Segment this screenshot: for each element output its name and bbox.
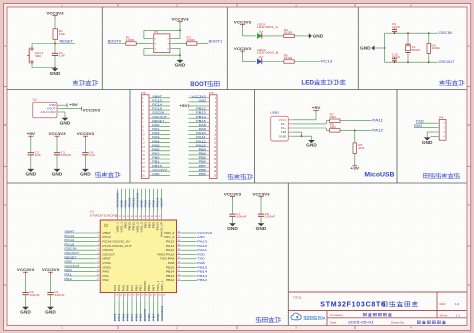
svg-text:VCC3V3: VCC3V3	[252, 192, 269, 196]
svg-text:PA11: PA11	[166, 248, 175, 252]
svg-text:PB0: PB0	[134, 284, 138, 291]
svg-text:1uF: 1uF	[59, 54, 66, 58]
svg-text:VCC3V3: VCC3V3	[48, 132, 65, 136]
svg-text:TITLE:: TITLE:	[293, 296, 302, 300]
svg-text:GND: GND	[60, 120, 71, 125]
svg-text:A: A	[4, 44, 6, 48]
svg-text:510R: 510R	[284, 30, 292, 34]
svg-text:SMD: SMD	[35, 54, 41, 58]
svg-text:Drawn By:: Drawn By:	[391, 320, 405, 324]
svg-text:100k: 100k	[431, 46, 440, 50]
svg-text:PB11: PB11	[131, 221, 135, 230]
svg-text:VCC3V3: VCC3V3	[234, 20, 251, 24]
svg-text:VCC3V3: VCC3V3	[171, 17, 188, 21]
svg-text:PA12: PA12	[166, 244, 175, 248]
svg-text:1k5: 1k5	[358, 146, 365, 150]
svg-text:RXD: RXD	[414, 124, 423, 128]
svg-text:VCC3V3: VCC3V3	[83, 109, 100, 113]
svg-text:PB2: PB2	[123, 221, 127, 228]
svg-text:VCC3V3: VCC3V3	[160, 306, 164, 321]
svg-text:PA0: PA0	[102, 270, 109, 274]
svg-text:Q1: Q1	[33, 98, 38, 102]
svg-text:PC15-OSC32_OUT: PC15-OSC32_OUT	[102, 244, 132, 248]
svg-text:B: B	[468, 123, 470, 127]
svg-text:OSCIN: OSCIN	[439, 31, 453, 35]
svg-text:TXD: TXD	[416, 119, 425, 123]
svg-text:TXD-PA9: TXD-PA9	[160, 257, 175, 261]
svg-text:100nF: 100nF	[29, 293, 40, 297]
svg-text:GND: GND	[152, 172, 160, 176]
svg-text:+5V: +5V	[179, 104, 188, 108]
svg-text:100nF: 100nF	[265, 214, 276, 218]
svg-text:RXD-PA10: RXD-PA10	[158, 252, 175, 256]
svg-text:510R: 510R	[284, 56, 292, 60]
svg-text:P1: P1	[154, 30, 159, 34]
svg-text:BACK_UP: BACK_UP	[159, 222, 163, 237]
svg-text:VDDA: VDDA	[102, 265, 111, 269]
svg-text:22R: 22R	[330, 125, 336, 129]
svg-text:PB14: PB14	[166, 270, 175, 274]
svg-text:PB12: PB12	[166, 278, 175, 282]
svg-text:VSS_2: VSS_2	[139, 221, 143, 232]
svg-text:PB3: PB3	[143, 221, 147, 228]
svg-text:VSSA: VSSA	[102, 261, 111, 265]
svg-text:1.0: 1.0	[455, 302, 460, 306]
svg-text:PB10: PB10	[127, 221, 131, 230]
svg-text:Company:: Company:	[330, 313, 344, 317]
svg-text:VCC3V3: VCC3V3	[224, 192, 241, 196]
svg-text:RESET: RESET	[60, 40, 74, 44]
svg-text:GND: GND	[199, 98, 207, 102]
svg-text:GND: GND	[360, 45, 371, 50]
svg-text:BOOT: BOOT	[190, 81, 208, 88]
svg-text:PA6: PA6	[126, 284, 130, 291]
svg-text:LED-0603_B: LED-0603_B	[257, 51, 278, 55]
svg-text:10k: 10k	[59, 32, 66, 36]
svg-text:GND: GND	[175, 63, 186, 68]
svg-text:100nF: 100nF	[61, 153, 72, 157]
svg-text:GND: GND	[26, 172, 37, 177]
svg-text:1uF: 1uF	[35, 153, 42, 157]
svg-text:GND: GND	[52, 172, 63, 177]
svg-text:P2: P2	[141, 91, 146, 95]
svg-text:OSCOUT: OSCOUT	[439, 60, 455, 64]
svg-text:Sheet:: Sheet:	[440, 313, 449, 317]
svg-text:PA1: PA1	[102, 274, 109, 278]
svg-text:PB9: PB9	[199, 172, 207, 176]
svg-text:REV:: REV:	[440, 302, 447, 306]
svg-text:PB15: PB15	[166, 265, 175, 269]
svg-text:B: B	[4, 123, 6, 127]
svg-text:VSS_1: VSS_1	[156, 280, 160, 291]
svg-text:100nF: 100nF	[236, 214, 247, 218]
svg-text:PA7: PA7	[130, 284, 134, 291]
svg-text:OSCIN: OSCIN	[102, 248, 113, 252]
svg-text:P4: P4	[439, 116, 444, 120]
svg-text:BOOT1: BOOT1	[209, 40, 223, 44]
svg-text:1uF: 1uF	[89, 153, 96, 157]
svg-text:OSCOUT: OSCOUT	[102, 252, 115, 256]
svg-text:PC13: PC13	[102, 235, 111, 239]
svg-text:ADJ/GND: ADJ/GND	[40, 110, 55, 114]
svg-text:A: A	[468, 44, 470, 48]
svg-text:GND: GND	[50, 71, 61, 76]
svg-text:GND: GND	[313, 33, 324, 38]
svg-text:22pF: 22pF	[392, 25, 401, 29]
svg-text:+5V: +5V	[69, 103, 79, 107]
svg-text:+5V: +5V	[27, 132, 37, 136]
svg-text:PC14-OSC32_IN: PC14-OSC32_IN	[102, 240, 129, 244]
svg-text:Date:: Date:	[330, 320, 337, 324]
svg-text:LED: LED	[301, 80, 314, 87]
svg-text:1:1: 1:1	[456, 313, 461, 317]
svg-text:BOOT0: BOOT0	[108, 40, 122, 44]
svg-text:PA13: PA13	[166, 240, 175, 244]
svg-text:VBAT: VBAT	[102, 231, 111, 235]
svg-text:VDD_2: VDD_2	[135, 221, 139, 232]
svg-text:2025-05-01: 2025-05-01	[348, 320, 374, 324]
svg-text:MicoUSB: MicoUSB	[364, 172, 394, 179]
svg-text:GND: GND	[45, 309, 56, 314]
svg-text:PA14: PA14	[155, 221, 159, 230]
svg-text:USB1: USB1	[270, 111, 279, 115]
svg-text:GND: GND	[422, 140, 433, 145]
svg-text:BOOT0: BOOT0	[143, 280, 147, 291]
svg-text:VDD_3: VDD_3	[164, 231, 175, 235]
svg-text:GND: GND	[306, 143, 317, 148]
svg-text:PB13: PB13	[166, 274, 175, 278]
svg-text:VCC3V3: VCC3V3	[46, 11, 63, 15]
svg-text:PB1: PB1	[139, 284, 143, 291]
svg-text:PA11: PA11	[372, 119, 383, 123]
svg-text:+5V: +5V	[312, 106, 322, 110]
svg-text:22R: 22R	[330, 115, 336, 119]
svg-text:VCC3V3: VCC3V3	[42, 268, 59, 272]
svg-text:GND: GND	[279, 134, 287, 138]
svg-text:PA4: PA4	[117, 284, 121, 291]
svg-text:P3: P3	[209, 91, 214, 95]
svg-text:GND: GND	[80, 172, 91, 177]
svg-text:VDD_1: VDD_1	[160, 280, 164, 291]
svg-text:PB12: PB12	[197, 278, 207, 282]
svg-text:PA5: PA5	[121, 284, 125, 291]
svg-text:PA12: PA12	[372, 128, 383, 132]
svg-text:100nF: 100nF	[54, 293, 65, 297]
svg-text:8MHZ: 8MHZ	[412, 48, 421, 52]
svg-text:VCC3V3: VCC3V3	[234, 47, 251, 51]
svg-text:PA8: PA8	[168, 261, 175, 265]
svg-text:LED-0603_G: LED-0603_G	[257, 25, 278, 29]
svg-text:VBAT: VBAT	[159, 198, 163, 208]
svg-text:GND: GND	[256, 226, 267, 231]
svg-text:VCC3V3: VCC3V3	[77, 132, 94, 136]
svg-text:VSS_3: VSS_3	[164, 235, 175, 239]
svg-text:VDD_1: VDD_1	[115, 221, 119, 232]
svg-text:GND: GND	[20, 309, 31, 314]
svg-text:PA2: PA2	[64, 277, 72, 281]
svg-text:PB5: PB5	[151, 221, 155, 228]
svg-text:VCC3V3: VCC3V3	[17, 268, 34, 272]
svg-text:100R: 100R	[126, 38, 134, 42]
svg-text:EDA: EDA	[318, 316, 326, 322]
svg-text:GND: GND	[227, 226, 238, 231]
svg-text:PB7: PB7	[152, 284, 156, 291]
svg-text:PB4: PB4	[147, 221, 151, 228]
svg-text:PA2: PA2	[102, 278, 109, 282]
svg-text:PB6: PB6	[147, 284, 151, 291]
svg-text:PC13: PC13	[321, 59, 332, 63]
svg-text:STM32F103C8T6: STM32F103C8T6	[320, 301, 385, 308]
svg-text:PA3: PA3	[113, 284, 117, 291]
svg-text:100R: 100R	[187, 38, 195, 42]
svg-text:NRST: NRST	[102, 257, 111, 261]
svg-text:VSS_1: VSS_1	[119, 221, 123, 232]
svg-text:+3V: +3V	[350, 167, 360, 171]
